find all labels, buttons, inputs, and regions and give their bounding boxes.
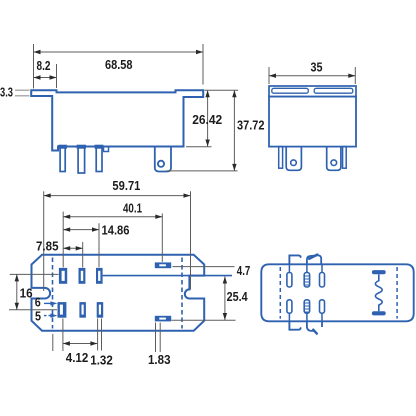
dimension 37.72 — [166, 90, 238, 171]
lid slot right — [314, 88, 353, 93]
dimension 7.85 — [63, 242, 82, 267]
dimension 59.71 — [44, 191, 191, 291]
relay body outline (side view) — [31, 90, 203, 150]
svg-text:35: 35 — [311, 60, 323, 75]
svg-text:7.85: 7.85 — [36, 239, 59, 254]
wire bottom col3 stub — [321, 321, 323, 327]
lid slot left — [272, 88, 309, 93]
contact pin capsule top col3 — [321, 264, 323, 272]
small mould tab — [104, 147, 109, 152]
pin 4 (bottom view) — [58, 302, 67, 318]
dimension 14.86 — [63, 223, 99, 267]
bracket hole — [158, 161, 164, 167]
svg-text:26.42: 26.42 — [192, 112, 222, 127]
left pin plate — [286, 147, 301, 171]
right pin thin bar — [343, 147, 347, 169]
dimension 25.4 — [172, 277, 236, 321]
right pin hole — [331, 160, 337, 166]
svg-text:40.1: 40.1 — [123, 201, 142, 216]
right pin plate — [327, 147, 341, 171]
dimension 40.1 — [63, 212, 162, 268]
contact pin capsule bottom col2 (hatched) — [306, 313, 308, 321]
svg-text:1.83: 1.83 — [148, 352, 171, 367]
contact pin capsule bottom col1 — [288, 313, 290, 321]
pin 3 (bottom view) — [96, 268, 103, 284]
svg-text:16: 16 — [20, 286, 33, 301]
contact tick top — [309, 255, 317, 259]
dashed mould line right — [181, 258, 183, 329]
pin 2 (side view) — [78, 148, 85, 174]
left pin hole — [291, 160, 297, 166]
dimension 16 — [9, 274, 59, 309]
relay main body (front view) — [269, 97, 356, 147]
contact pin capsule top col2 (hatched) — [306, 264, 308, 272]
pin 2 (bottom view) — [79, 268, 86, 284]
pin 5 (bottom view) — [79, 302, 86, 318]
contact pin capsule top col1 — [288, 264, 290, 272]
wiring view outline — [261, 264, 413, 321]
svg-text:5: 5 — [35, 309, 41, 324]
wire top col1 — [289, 255, 300, 264]
dimension 3.3 (flange thickness ticks) — [15, 90, 30, 96]
pin shoulder caps — [58, 145, 67, 149]
dashed line right — [396, 267, 398, 319]
dimension 35 — [269, 67, 355, 84]
mounting bracket with hole — [155, 147, 171, 172]
svg-text:8.2: 8.2 — [37, 58, 51, 73]
relay lid (front view) — [269, 86, 356, 97]
contact tick bottom — [313, 330, 317, 334]
dimension 8.2 — [34, 64, 57, 88]
pin 3 (side view) — [96, 148, 102, 172]
dimension 1.83 extension lines — [156, 323, 161, 353]
svg-text:1.32: 1.32 — [90, 353, 113, 368]
centre line to notch — [103, 275, 232, 277]
dashed mould line left — [52, 258, 54, 329]
wire bottom col1 — [289, 321, 300, 329]
pin 1 (side view) — [60, 148, 65, 172]
coil spring — [375, 274, 382, 311]
left pin thin bar — [279, 147, 283, 169]
svg-text:68.58: 68.58 — [105, 57, 133, 72]
dimension 26.42 — [186, 90, 212, 147]
wire bottom col2 with tick — [307, 321, 315, 331]
coil pin top (bottom view) — [155, 262, 171, 268]
svg-text:6: 6 — [35, 295, 41, 310]
dimension 4.12 — [53, 319, 98, 352]
dimension 4.7 leader — [173, 266, 235, 268]
coil plate top — [372, 270, 386, 274]
svg-text:37.72: 37.72 — [237, 118, 265, 133]
svg-text:4.12: 4.12 — [66, 350, 89, 365]
dimension 5 leader — [44, 315, 54, 317]
bottom view outline with side notches — [32, 255, 205, 331]
svg-text:3.3: 3.3 — [0, 85, 13, 100]
svg-text:14.86: 14.86 — [102, 223, 130, 238]
dashed line left — [279, 267, 281, 319]
svg-text:25.4: 25.4 — [227, 289, 249, 304]
contact pin capsule bottom col3 — [321, 313, 323, 321]
svg-text:4.7: 4.7 — [237, 263, 251, 278]
wire arch top col2-col3 — [307, 255, 321, 264]
coil plate bottom — [372, 311, 386, 315]
pin 6 (bottom view) — [97, 302, 104, 318]
svg-text:59.71: 59.71 — [112, 178, 140, 193]
dimension 68.58 — [34, 44, 204, 89]
coil pin bottom (bottom view) — [155, 316, 171, 322]
dimension 6 leader — [44, 302, 55, 304]
pin 1 (bottom view) — [59, 268, 67, 284]
dimension 1.32 extension lines — [98, 319, 102, 351]
